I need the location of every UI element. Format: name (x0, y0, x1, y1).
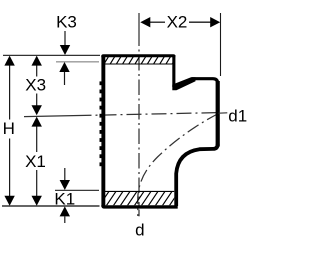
svg-text:X1: X1 (25, 152, 46, 171)
K3 up arrow below gray line (59, 62, 69, 72)
bottom socket hatch band (99, 191, 180, 207)
top band bottom boundary (104, 63, 172, 65)
K3 socket depth line (gray) (56, 61, 99, 63)
pipe body: top face bar (101, 54, 175, 57)
svg-text:H: H (3, 119, 15, 138)
pipe body: right wall upper segment (172, 55, 175, 87)
centerline branch sweep curve (138, 114, 219, 217)
svg-text:d: d (135, 221, 144, 240)
branch socket top edge (192, 79, 218, 84)
svg-text:X2: X2 (167, 13, 188, 32)
K1 up arrow below bottom line (60, 206, 70, 216)
X2 right arrow (210, 17, 220, 27)
X3 top arrow (32, 56, 42, 66)
top reference line (top face level) (3, 54, 100, 56)
top socket hatch band (104, 56, 177, 65)
X2 right extension line (220, 13, 222, 76)
svg-text:d1: d1 (228, 106, 247, 125)
H bottom arrow (4, 196, 14, 206)
X1 bottom arrow (32, 196, 42, 206)
centerline branch axis (slight 1.5 deg slope, solid lead from arrows) (24, 115, 92, 116)
K3 lower shaft (64, 72, 66, 85)
branch socket bottom edge and sweep elbow (176, 144, 218, 206)
bottom reference line (bottom face level) (2, 205, 100, 207)
dimension H vertical line (9, 57, 11, 120)
svg-text:K1: K1 (54, 190, 75, 209)
svg-text:X3: X3 (25, 76, 46, 95)
dimension K1 upper shaft (64, 168, 66, 181)
K1 lower shaft (64, 216, 66, 223)
weld collar wedge (172, 77, 195, 90)
H top arrow (4, 56, 14, 66)
K1 down arrow (60, 180, 70, 190)
centerline branch axis dash-dot part (96, 113, 219, 116)
electrofusion teeth on left wall (100, 81, 102, 166)
dimension X1 vertical line (36, 118, 38, 152)
dimension X2 line (150, 21, 165, 23)
svg-text:K3: K3 (56, 13, 77, 32)
K3 down arrow (60, 45, 70, 55)
d1 leader (219, 112, 228, 114)
pipe body: left wall (101, 55, 105, 207)
centerline vertical (main run axis d) (138, 13, 140, 46)
bottom band top boundary (104, 190, 174, 192)
X2 left arrow (140, 17, 150, 27)
K1 depth reference line (55, 189, 99, 191)
branch socket right face d1 (216, 81, 220, 147)
X3 bottom arrow (32, 105, 42, 115)
dimension K3 upper shaft (64, 31, 66, 46)
pipe body: bottom face bar (101, 205, 177, 208)
dimension X3 vertical line (36, 57, 38, 77)
X1 top arrow (32, 117, 42, 127)
